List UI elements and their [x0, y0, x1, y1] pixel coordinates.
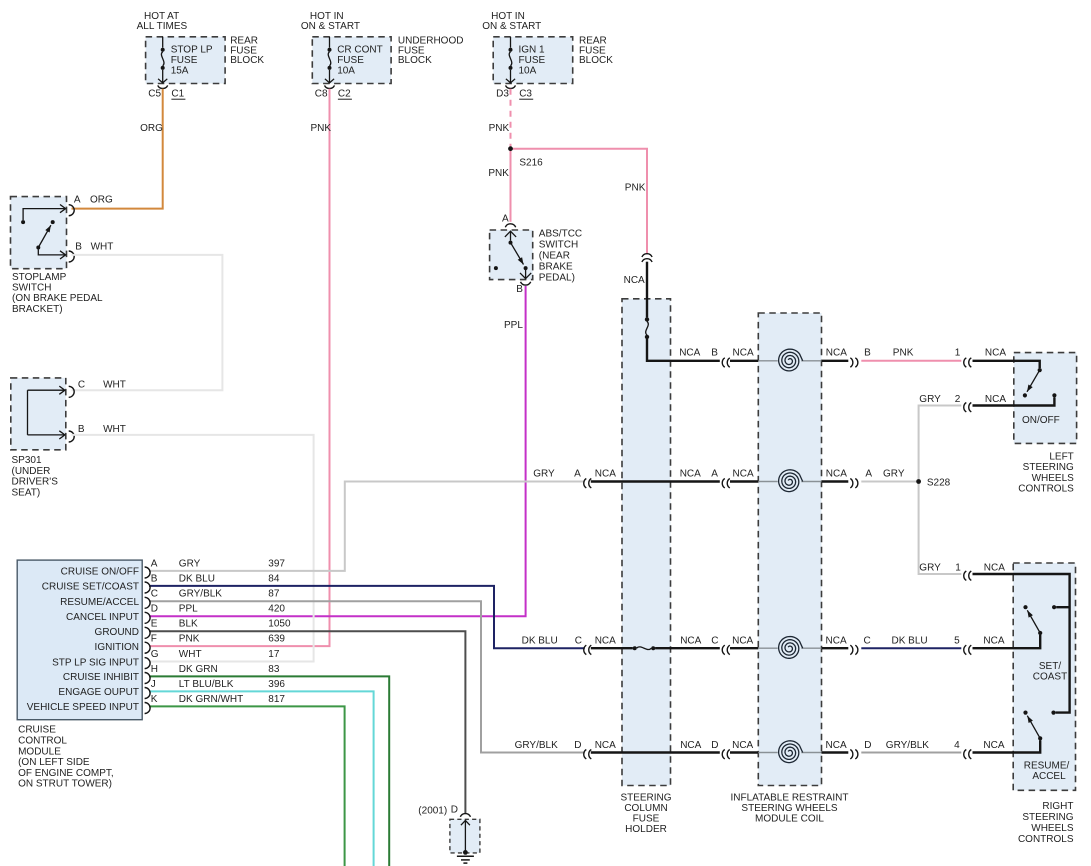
wire NCA pin 1 into right controls common: [973, 574, 1070, 713]
labels: inflatable restraint coil: [731, 792, 849, 824]
svg-text:SP301: SP301: [12, 455, 42, 466]
svg-text:NCA: NCA: [680, 469, 701, 480]
svg-text:ACCEL: ACCEL: [1032, 771, 1066, 782]
svg-text:PEDAL): PEDAL): [539, 272, 575, 283]
labels: fuse block F3: [482, 11, 613, 134]
svg-text:GROUND: GROUND: [95, 627, 139, 638]
svg-text:B: B: [864, 348, 871, 359]
cruise control module box: [17, 560, 142, 720]
svg-text:BLOCK: BLOCK: [398, 55, 432, 66]
left steering wheels controls box: [1014, 353, 1077, 444]
connector on NCA wire above fuse holder: [642, 254, 652, 262]
connector D3/C3 under F3: [506, 85, 516, 88]
svg-text:RESUME/: RESUME/: [1024, 760, 1070, 771]
in-line connectors (( at right control boxes rows B 2 1 5 4: [964, 358, 972, 759]
labels: ABS/TCC switch: [539, 229, 582, 284]
svg-text:WHT: WHT: [103, 424, 126, 435]
svg-text:NCA: NCA: [595, 469, 616, 480]
svg-text:PNK: PNK: [893, 348, 914, 359]
svg-text:PNK: PNK: [489, 123, 510, 134]
svg-text:ORG: ORG: [90, 195, 113, 206]
labels: stoplamp switch: [12, 195, 113, 315]
svg-text:CONTROLS: CONTROLS: [1018, 483, 1074, 494]
svg-text:10A: 10A: [519, 65, 537, 76]
wire NCA stub to set/coast fixed contact: [1056, 606, 1069, 608]
svg-text:GRY: GRY: [883, 469, 905, 480]
svg-text:GRY: GRY: [179, 558, 201, 569]
labels: fuse block F2: [301, 11, 464, 134]
wire GRY row A to splice S228: [861, 481, 918, 483]
svg-text:C: C: [78, 380, 85, 391]
svg-text:BLOCK: BLOCK: [579, 55, 613, 66]
svg-text:D: D: [151, 604, 158, 615]
labels: left controls rows 2 and 1: [919, 394, 1006, 574]
module pin connectors (A-K): [145, 567, 151, 714]
svg-text:CRUISE: CRUISE: [18, 725, 56, 736]
svg-text:B: B: [516, 284, 523, 295]
svg-text:PNK: PNK: [488, 168, 509, 179]
coil row B: [779, 349, 803, 371]
svg-text:PNK: PNK: [311, 123, 332, 134]
connector at SP301 pin B: [69, 431, 75, 442]
fuse in steering column fuse holder (row B): [645, 317, 649, 339]
wire NCA row B right of coil box: [822, 360, 849, 362]
coil row D: [779, 741, 803, 763]
svg-text:LEFT: LEFT: [1049, 452, 1073, 463]
labels: coil grid row D: [515, 740, 1005, 751]
svg-text:C1: C1: [171, 88, 184, 99]
labels: right steering wheels controls: [1018, 801, 1074, 845]
wire NCA row D right of coil box: [822, 751, 849, 753]
svg-text:HOT IN: HOT IN: [310, 11, 344, 22]
in-line connectors (( left of coil box rows B A C D: [722, 358, 730, 759]
stoplamp switch box (ON BRAKE PEDAL BRACKET): [11, 197, 67, 269]
svg-text:A: A: [502, 214, 509, 225]
labels: set/coast and resume/accel: [1024, 661, 1070, 782]
svg-text:5: 5: [954, 635, 960, 646]
svg-text:PPL: PPL: [504, 320, 523, 331]
wire PNK from S216 right and down to NCA connector: [511, 149, 648, 254]
svg-text:420: 420: [268, 604, 285, 615]
connector C5/C1 under F1: [158, 85, 168, 88]
svg-text:PPL: PPL: [179, 604, 198, 615]
svg-text:G: G: [151, 649, 159, 660]
svg-text:DK GRN/WHT: DK GRN/WHT: [179, 694, 243, 705]
svg-text:C8: C8: [315, 88, 328, 99]
svg-text:D: D: [574, 740, 581, 751]
svg-text:VEHICLE SPEED INPUT: VEHICLE SPEED INPUT: [27, 702, 139, 713]
ground symbol: [457, 850, 474, 863]
in-line connectors (( left of fuse holder rows A C D: [584, 479, 592, 759]
svg-text:C: C: [575, 635, 582, 646]
svg-text:A: A: [865, 469, 872, 480]
connector C8/C2 under F2: [325, 85, 335, 88]
svg-text:C: C: [711, 635, 718, 646]
wire WHT from stoplamp pin B to SP301 pin C: [72, 255, 223, 390]
svg-text:D: D: [451, 805, 458, 816]
svg-text:GRY: GRY: [919, 563, 941, 574]
svg-text:STP LP SIG INPUT: STP LP SIG INPUT: [52, 657, 139, 668]
svg-text:NCA: NCA: [680, 635, 701, 646]
wire NCA pin 4 into right controls: [973, 740, 1041, 752]
wire NCA row B from fuse to coil box: [647, 339, 720, 361]
wire DK GRN from module pin H down off page: [149, 676, 389, 866]
svg-text:87: 87: [268, 589, 280, 600]
labels: SP301: [12, 380, 126, 499]
steering column fuse holder box: [622, 299, 671, 786]
svg-text:C3: C3: [519, 88, 532, 99]
wire NCA row D segments: [591, 751, 720, 753]
wire DK BLU from module pin B to coil row C: [149, 586, 585, 648]
svg-text:PNK: PNK: [625, 183, 646, 194]
fuse block F1 box (REAR FUSE BLOCK, STOP LP FUSE 15A): [146, 37, 226, 84]
svg-text:1050: 1050: [268, 619, 291, 630]
svg-text:STEERING: STEERING: [1023, 462, 1074, 473]
connector at ABS/TCC pin B: [521, 282, 531, 285]
svg-text:D3: D3: [496, 88, 509, 99]
svg-text:H: H: [151, 664, 158, 675]
wire NCA pin 5 into right controls: [973, 635, 1041, 648]
svg-text:K: K: [151, 694, 158, 705]
svg-text:CONTROL: CONTROL: [18, 736, 67, 747]
svg-text:SET/: SET/: [1039, 661, 1061, 672]
svg-text:SWITCH: SWITCH: [12, 283, 51, 294]
svg-text:WHEELS: WHEELS: [1031, 823, 1074, 834]
svg-text:NCA: NCA: [595, 740, 616, 751]
wire NCA into fuse holder row B: [646, 262, 648, 318]
svg-text:ON & START: ON & START: [301, 21, 360, 32]
connector at stoplamp pin A: [69, 205, 75, 216]
svg-text:NCA: NCA: [624, 275, 645, 286]
on/off switch in left controls: [1023, 368, 1057, 398]
wire GRY from module pin A up to coil row A: [149, 482, 585, 571]
svg-text:D: D: [864, 740, 871, 751]
svg-text:NCA: NCA: [733, 469, 754, 480]
wire NCA pin 2 into left controls: [973, 398, 1055, 406]
svg-text:CRUISE ON/OFF: CRUISE ON/OFF: [61, 567, 139, 578]
svg-text:DK BLU: DK BLU: [892, 635, 928, 646]
inflatable restraint steering wheels module coil box: [758, 313, 821, 786]
svg-text:C5: C5: [148, 88, 161, 99]
svg-text:STOP LP: STOP LP: [171, 45, 213, 56]
svg-text:WHT: WHT: [179, 649, 202, 660]
wire NCA row C right of coil box: [822, 647, 849, 649]
svg-text:C2: C2: [338, 88, 351, 99]
svg-text:FUSE: FUSE: [519, 55, 546, 66]
svg-text:NCA: NCA: [680, 740, 701, 751]
svg-text:ON/OFF: ON/OFF: [1022, 415, 1060, 426]
svg-text:RESUME/ACCEL: RESUME/ACCEL: [60, 597, 139, 608]
svg-text:83: 83: [268, 664, 280, 675]
wire PNK row B to left steering wheel controls pin 1: [861, 360, 961, 362]
wire GRY/BLK from module pin C to coil row D: [149, 601, 585, 752]
svg-text:NCA: NCA: [983, 635, 1004, 646]
wire ORG from F1 to stoplamp switch pin A: [72, 89, 163, 209]
svg-text:NCA: NCA: [733, 348, 754, 359]
splice pack SP301 box (UNDER DRIVER'S SEAT): [11, 378, 66, 450]
svg-text:NCA: NCA: [826, 348, 847, 359]
svg-text:(NEAR: (NEAR: [539, 251, 570, 262]
svg-text:NCA: NCA: [679, 348, 700, 359]
labels: ground (2001) D: [418, 805, 458, 817]
svg-text:OF ENGINE COMPT,: OF ENGINE COMPT,: [18, 768, 114, 779]
svg-text:NCA: NCA: [732, 635, 753, 646]
ABS/TCC switch box (NEAR BRAKE PEDAL): [490, 230, 533, 280]
svg-text:A: A: [151, 558, 158, 569]
svg-text:WHT: WHT: [91, 241, 114, 252]
svg-text:COLUMN: COLUMN: [624, 803, 667, 814]
svg-text:397: 397: [268, 558, 285, 569]
svg-text:2: 2: [955, 394, 961, 405]
svg-text:HOLDER: HOLDER: [625, 824, 667, 835]
svg-text:NCA: NCA: [984, 563, 1005, 574]
wire NCA row A segments: [591, 480, 720, 482]
svg-text:STEERING: STEERING: [1022, 812, 1073, 823]
svg-text:ON STRUT TOWER): ON STRUT TOWER): [18, 779, 112, 790]
labels: splice S216 area: [488, 158, 645, 332]
svg-text:S228: S228: [927, 478, 951, 489]
svg-text:CRUISE INHIBIT: CRUISE INHIBIT: [63, 672, 139, 683]
svg-text:NCA: NCA: [985, 348, 1006, 359]
svg-text:A: A: [711, 469, 718, 480]
wire BLK from module pin E to ground G103: [149, 631, 465, 813]
wire PNK from F2 down to module pin F: [149, 89, 330, 646]
svg-text:CANCEL INPUT: CANCEL INPUT: [66, 612, 139, 623]
svg-text:S216: S216: [519, 158, 543, 169]
grey coil leads row D: [758, 752, 777, 754]
svg-text:DK GRN: DK GRN: [179, 664, 218, 675]
wire DK BLU row C to right steering wheel controls pin 5: [861, 647, 961, 649]
svg-text:84: 84: [268, 573, 280, 584]
connector at ground G103: [460, 814, 470, 817]
svg-text:NCA: NCA: [732, 740, 753, 751]
svg-text:FUSE: FUSE: [633, 814, 660, 825]
svg-text:NCA: NCA: [983, 740, 1004, 751]
svg-text:CRUISE SET/COAST: CRUISE SET/COAST: [42, 582, 139, 593]
svg-text:GRY/BLK: GRY/BLK: [179, 589, 222, 600]
svg-text:BRAKE: BRAKE: [539, 261, 573, 272]
splice S228: [916, 479, 921, 484]
svg-text:GRY: GRY: [919, 394, 941, 405]
svg-text:(UNDER: (UNDER: [12, 466, 51, 477]
wire NCA row C segments with fuse in holder: [591, 647, 633, 649]
svg-text:BLOCK: BLOCK: [230, 55, 264, 66]
svg-text:A: A: [74, 195, 81, 206]
svg-text:COAST: COAST: [1033, 672, 1067, 683]
labels: module pin letters, wire colors, circuit numbers: [151, 558, 291, 705]
wire PPL from ABS/TCC pin B down to module pin D: [149, 286, 526, 616]
wire GRY from S228 up to pin 2 and down to pin 1: [919, 406, 962, 575]
svg-text:GRY/BLK: GRY/BLK: [515, 740, 558, 751]
svg-text:STEERING: STEERING: [620, 792, 671, 803]
svg-text:B: B: [151, 573, 158, 584]
wire WHT from SP301 pin B to module pin G: [72, 435, 314, 662]
svg-text:CR CONT: CR CONT: [337, 45, 383, 56]
svg-text:RIGHT: RIGHT: [1042, 801, 1073, 812]
right steering wheels controls box: [1013, 563, 1075, 790]
svg-text:1: 1: [955, 348, 961, 359]
labels: coil grid row B: [679, 348, 1006, 359]
connector at SP301 pin C: [69, 386, 75, 397]
wire GRY/BLK row D to right steering wheel controls pin 4: [861, 752, 961, 754]
svg-text:IGNITION: IGNITION: [95, 642, 139, 653]
svg-text:J: J: [151, 679, 156, 690]
grey coil leads row B: [758, 360, 777, 362]
svg-text:IGN 1: IGN 1: [519, 45, 546, 56]
svg-text:BRACKET): BRACKET): [12, 304, 63, 315]
svg-text:DK BLU: DK BLU: [522, 635, 558, 646]
svg-text:DRIVER'S: DRIVER'S: [12, 477, 59, 488]
svg-text:DK BLU: DK BLU: [179, 573, 215, 584]
svg-text:MODULE COIL: MODULE COIL: [755, 814, 824, 825]
wire NCA row A right of coil box: [822, 480, 849, 482]
svg-text:(ON LEFT SIDE: (ON LEFT SIDE: [18, 757, 90, 768]
svg-text:B: B: [78, 424, 85, 435]
svg-text:SEAT): SEAT): [12, 487, 41, 498]
labels: steering column fuse holder: [620, 792, 671, 835]
svg-text:4: 4: [954, 740, 960, 751]
svg-text:INFLATABLE RESTRAINT: INFLATABLE RESTRAINT: [731, 792, 849, 803]
svg-text:ENGAGE OUPUT: ENGAGE OUPUT: [58, 687, 139, 698]
labels: module location: [18, 725, 114, 790]
svg-text:D: D: [711, 740, 718, 751]
wire DK GRN/WHT from module pin K down off page: [149, 706, 345, 866]
coil row C: [779, 637, 803, 659]
svg-text:A: A: [574, 469, 581, 480]
wire PNK dashed from F3 to splice S216: [510, 89, 512, 147]
svg-text:B: B: [711, 348, 718, 359]
svg-text:MODULE: MODULE: [18, 746, 61, 757]
grey coil leads row A: [758, 481, 777, 483]
svg-text:STEERING WHEELS: STEERING WHEELS: [741, 803, 837, 814]
labels: left steering wheels controls: [1022, 415, 1060, 426]
labels: coil grid row A: [533, 469, 950, 489]
svg-text:NCA: NCA: [595, 635, 616, 646]
svg-text:HOT IN: HOT IN: [491, 11, 525, 22]
svg-text:FUSE: FUSE: [337, 55, 364, 66]
svg-text:CONTROLS: CONTROLS: [1018, 834, 1074, 845]
fuse block F2 box (UNDERHOOD FUSE BLOCK, CR CONT FUSE 10A): [312, 37, 391, 84]
svg-text:817: 817: [268, 694, 285, 705]
svg-text:GRY: GRY: [533, 469, 555, 480]
svg-text:BLK: BLK: [179, 619, 198, 630]
svg-text:HOT AT: HOT AT: [144, 11, 179, 22]
svg-text:NCA: NCA: [826, 469, 847, 480]
svg-text:396: 396: [268, 679, 285, 690]
svg-text:NCA: NCA: [826, 635, 847, 646]
connector at ABS/TCC pin A: [505, 224, 515, 228]
svg-text:ALL TIMES: ALL TIMES: [137, 21, 188, 32]
ground G103 box (2001): [450, 819, 480, 853]
svg-text:(ON BRAKE PEDAL: (ON BRAKE PEDAL: [12, 293, 103, 304]
grey coil leads row C: [758, 647, 777, 649]
fuse block F3 box (REAR FUSE BLOCK, IGN 1 FUSE 10A): [493, 37, 573, 84]
svg-text:STOPLAMP: STOPLAMP: [12, 272, 67, 283]
svg-text:F: F: [151, 634, 157, 645]
svg-text:ON & START: ON & START: [482, 21, 541, 32]
resume/accel switch: [1023, 711, 1055, 741]
svg-text:15A: 15A: [171, 65, 189, 76]
svg-text:NCA: NCA: [985, 394, 1006, 405]
svg-text:(2001): (2001): [418, 806, 447, 817]
svg-text:1: 1: [955, 563, 961, 574]
wire LT BLU/BLK from module pin J down off page: [149, 691, 374, 866]
labels: fuse block F1: [137, 11, 265, 134]
svg-text:10A: 10A: [337, 65, 355, 76]
svg-text:E: E: [151, 619, 158, 630]
splice S216: [508, 146, 513, 151]
svg-text:SWITCH: SWITCH: [539, 240, 578, 251]
svg-text:FUSE: FUSE: [171, 55, 198, 66]
svg-text:NCA: NCA: [826, 740, 847, 751]
wire NCA pin 1 into left controls: [973, 361, 1040, 368]
svg-text:C: C: [151, 589, 158, 600]
wire PNK from S216 down to ABS/TCC switch pin A: [510, 146, 512, 221]
svg-text:B: B: [75, 241, 82, 252]
set/coast switch: [1023, 605, 1056, 635]
svg-text:WHEELS: WHEELS: [1032, 473, 1075, 484]
svg-text:C: C: [864, 635, 871, 646]
svg-text:ABS/TCC: ABS/TCC: [539, 229, 582, 240]
svg-text:639: 639: [268, 634, 285, 645]
svg-text:GRY/BLK: GRY/BLK: [886, 740, 929, 751]
svg-text:LT BLU/BLK: LT BLU/BLK: [179, 679, 234, 690]
in-line connectors )) right of coil box rows B A C D: [850, 358, 858, 759]
coil row A: [779, 470, 803, 492]
svg-text:PNK: PNK: [179, 634, 200, 645]
svg-text:17: 17: [268, 649, 280, 660]
labels: coil grid row C: [522, 635, 1005, 646]
svg-text:ORG: ORG: [140, 123, 163, 134]
svg-text:WHT: WHT: [103, 380, 126, 391]
connector at stoplamp pin B: [69, 251, 75, 262]
labels: module internal pin functions: [27, 567, 140, 714]
